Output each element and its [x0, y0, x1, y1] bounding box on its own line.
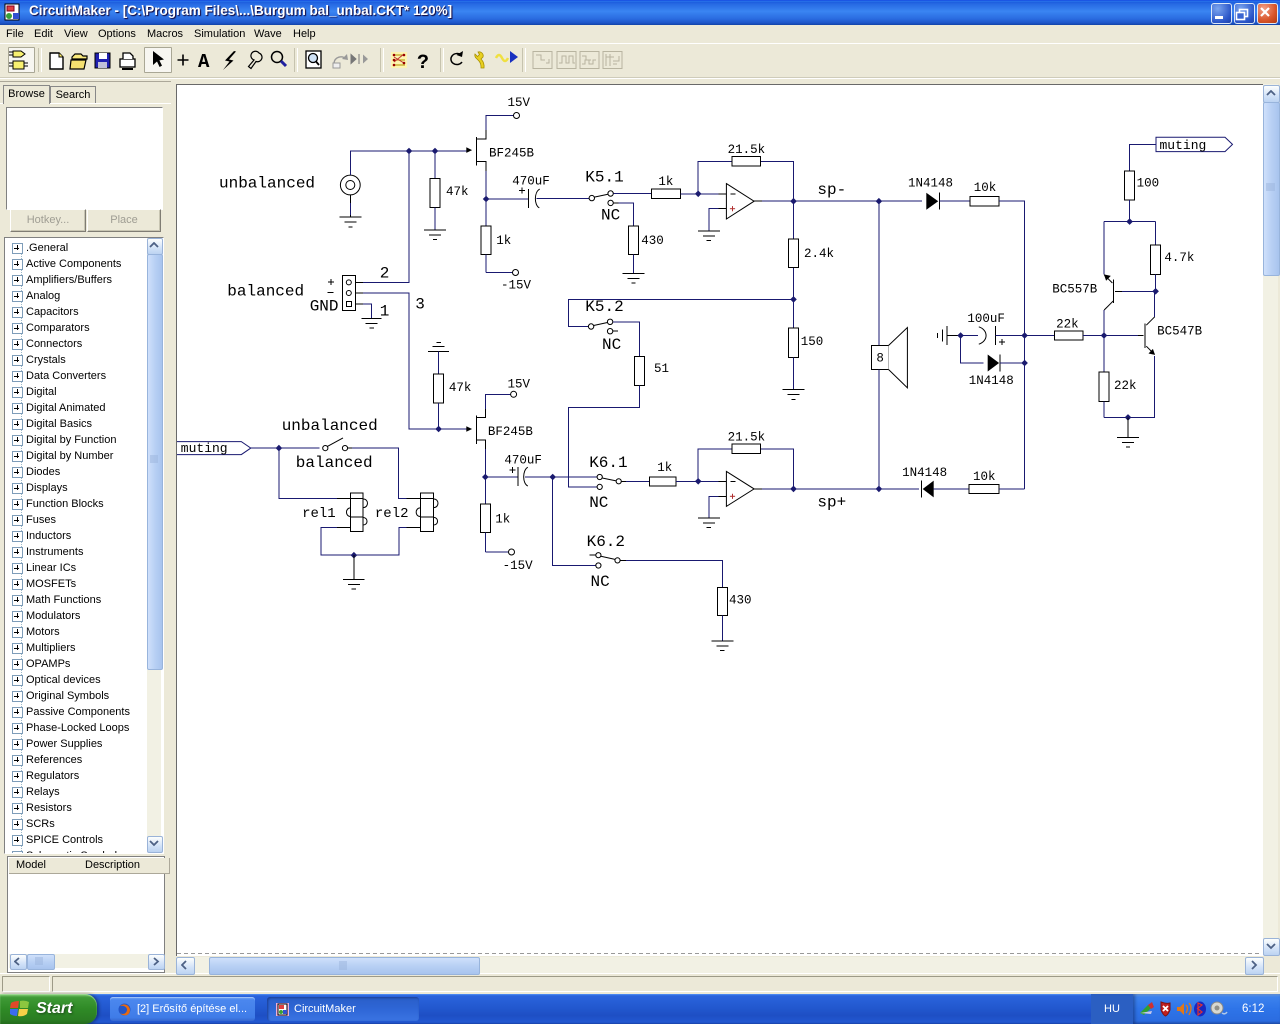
- wire bus to R10: [1025, 335, 1055, 337]
- svg-text:150: 150: [801, 335, 824, 349]
- node GNDRAIL junction: [351, 552, 358, 559]
- svg-text:100uF: 100uF: [967, 312, 1005, 326]
- wire top input net: [350, 151, 466, 175]
- node BUS2 (bus/D2 junction): [1021, 360, 1028, 367]
- node N3 (22k/base junction): [1101, 332, 1108, 339]
- resistor R18 10k: [969, 470, 999, 494]
- svg-text:470uF: 470uF: [504, 453, 542, 467]
- wire U1 out to divider: [793, 201, 795, 328]
- open folder: [72, 54, 87, 59]
- node DIV (divider junction): [790, 296, 797, 303]
- svg-text:BF245B: BF245B: [489, 147, 535, 161]
- node A (pin2 junction): [406, 148, 413, 155]
- resistor R10 22k: [1054, 318, 1083, 341]
- ground (relay rail): [343, 555, 365, 589]
- node S2 (Q4 source junction): [482, 474, 489, 481]
- terminal -15V (2): [509, 549, 515, 555]
- plus: [178, 55, 189, 66]
- svg-text:muting: muting: [1160, 138, 1207, 153]
- wire S2 to C2: [485, 476, 517, 478]
- resistor R16 1k: [650, 461, 676, 486]
- wire C1 to K5.1: [537, 198, 590, 200]
- wire K5.1 NC to R3: [619, 203, 634, 226]
- switch S1: [323, 438, 352, 451]
- wire R15 to -15V: [485, 551, 508, 553]
- wire D3 to R18: [934, 488, 969, 490]
- ground (U2 + input): [698, 518, 720, 528]
- wire K6.2 to R19: [626, 560, 722, 587]
- node U1- (inverting input junction): [695, 191, 702, 198]
- svg-text:sp+: sp+: [817, 493, 846, 511]
- resistor R12 4.7k: [1151, 245, 1195, 291]
- wire S1 to C1: [486, 198, 528, 200]
- transistor Q4 BF245B (JFET): [466, 409, 533, 449]
- undo circle: [451, 54, 462, 65]
- wire C2 to K6.1 node: [525, 476, 597, 478]
- menu bar: [0, 25, 1280, 43]
- wire K6.1 to R16: [626, 480, 650, 482]
- wire R8 to K6.1 NC throw: [569, 385, 640, 487]
- new doc: [50, 53, 63, 69]
- svg-text:1: 1: [380, 303, 390, 321]
- svg-text:47k: 47k: [446, 185, 469, 199]
- ground (left of C3, rotated): [938, 326, 958, 345]
- resistor R15 1k: [480, 504, 510, 552]
- svg-text:1k: 1k: [657, 461, 672, 475]
- run wave: [496, 55, 508, 61]
- wire pin1 to ground: [363, 304, 372, 318]
- wire D1 to R9: [940, 200, 970, 202]
- lightning: [223, 51, 236, 70]
- title bar: [0, 0, 1280, 25]
- resistor R14 47k: [434, 352, 472, 430]
- wire Q3 collector up: [1154, 291, 1156, 317]
- svg-text:100: 100: [1137, 177, 1160, 191]
- connectivity icon: [391, 52, 407, 68]
- node sp-1 (U1 out): [790, 198, 797, 205]
- node K6N (cap out junction): [549, 474, 556, 481]
- node N2 (4.7k/base/collector junction): [1152, 288, 1159, 295]
- resistor R1 47k: [430, 151, 469, 230]
- svg-text:4.7k: 4.7k: [1164, 251, 1194, 265]
- canvas h scrollbar: [176, 957, 1262, 973]
- svg-text:47k: 47k: [449, 381, 472, 395]
- resistor R7 150: [789, 328, 824, 389]
- taskbar: [0, 994, 1280, 1024]
- wire feedback U1: [698, 161, 793, 201]
- connector J2 balanced (3-pin): [343, 275, 363, 310]
- resistor R19 430: [717, 587, 751, 641]
- probe outline: [249, 51, 263, 68]
- wire rel1 bottom to ground rail: [321, 527, 407, 555]
- svg-text:balanced: balanced: [296, 454, 373, 472]
- print: [120, 59, 135, 67]
- terminal -15V: [513, 270, 519, 276]
- left panel: [0, 81, 171, 974]
- wire K5.2 to R8: [613, 322, 640, 357]
- resistor R8 51: [635, 357, 670, 386]
- svg-text:21.5k: 21.5k: [728, 143, 766, 157]
- wrench: [475, 52, 484, 68]
- resistor R2 1k: [481, 226, 511, 273]
- svg-text:K5.1: K5.1: [585, 169, 623, 187]
- svg-text:1k: 1k: [658, 175, 673, 189]
- wire M1 branches: [1104, 222, 1156, 275]
- wire Q4 drain to 15V: [485, 394, 510, 409]
- browse toggle icon: [9, 51, 28, 69]
- svg-text:NC: NC: [601, 207, 620, 225]
- node sp-2 (speaker top): [876, 198, 883, 205]
- svg-text:K5.2: K5.2: [585, 298, 623, 316]
- wire U1 noninv to ground: [709, 209, 719, 231]
- wire pin3 to Q4 gate: [363, 293, 466, 429]
- svg-text:K6.1: K6.1: [589, 454, 627, 472]
- node sp+1 (U2 out): [790, 486, 797, 493]
- svg-text:22k: 22k: [1056, 318, 1079, 332]
- svg-text:unbalanced: unbalanced: [282, 417, 378, 435]
- diode D1 1N4148: [908, 177, 953, 210]
- svg-text:470uF: 470uF: [512, 175, 550, 189]
- ground (U1 + input): [698, 231, 720, 241]
- flag muting (left): [176, 441, 251, 456]
- op-amp U1: [719, 184, 762, 219]
- label + (pin2): [328, 279, 334, 285]
- sheet border dashed: [177, 953, 1262, 955]
- wire Q1 drain to 15V: [486, 116, 513, 131]
- arrow cursor: [153, 51, 164, 67]
- svg-text:BC557B: BC557B: [1052, 283, 1098, 297]
- svg-text:3: 3: [415, 295, 425, 313]
- svg-text:balanced: balanced: [227, 283, 304, 301]
- capacitor C2 470uF: [504, 453, 542, 486]
- wire to D2: [961, 336, 984, 364]
- svg-text:rel2: rel2: [375, 506, 409, 522]
- node M2 (muting junction): [276, 445, 283, 452]
- resistor R9 10k: [970, 181, 999, 206]
- svg-text:BF245B: BF245B: [488, 425, 534, 439]
- splitter arrows: [351, 54, 359, 64]
- node C3L (cap left junction): [957, 332, 964, 339]
- diode D2 1N4148: [969, 355, 1014, 389]
- transistor Q1 BF245B (JFET): [466, 130, 534, 171]
- resistor R3 430: [629, 226, 664, 274]
- wire feedback U2: [698, 449, 793, 489]
- ground (under R1): [424, 230, 446, 240]
- svg-text:1k: 1k: [496, 234, 511, 248]
- tray icons: [1140, 1005, 1152, 1015]
- svg-text:1N4148: 1N4148: [902, 466, 947, 480]
- svg-text:sp-: sp-: [817, 181, 846, 199]
- wire D2 to bus: [1000, 362, 1025, 364]
- toolbar: [0, 43, 1280, 78]
- page zoom: [306, 51, 321, 68]
- svg-text:1k: 1k: [495, 513, 510, 527]
- flag muting (right): [1156, 137, 1233, 153]
- wire divider to K5.2: [569, 299, 794, 326]
- diode D3 1N4148: [902, 466, 947, 498]
- wire flag to switch: [251, 447, 319, 449]
- tree scrollbar: [147, 238, 161, 851]
- wire U2 noninv to ground: [709, 496, 719, 518]
- wire muting node to rel1: [279, 448, 337, 498]
- capacitor C1 470uF: [512, 175, 550, 208]
- node S1 (Q1 source junction): [483, 196, 490, 203]
- ground (right section): [1117, 417, 1139, 447]
- canvas: [176, 84, 1264, 956]
- relay contact K5.1: [585, 169, 623, 225]
- wire R2 to -15V: [486, 272, 512, 274]
- svg-text:NC: NC: [589, 494, 608, 512]
- svg-text:430: 430: [641, 234, 664, 248]
- svg-text:2.4k: 2.4k: [804, 247, 834, 261]
- wire R9 to right bus: [999, 201, 1025, 489]
- wire Q3 emitter to ground rail: [1104, 356, 1155, 417]
- ground (under R3): [623, 274, 645, 284]
- resistor R17 21.5k: [728, 430, 766, 453]
- svg-text:muting: muting: [181, 441, 228, 456]
- speaker LS1 8ohm: [872, 201, 908, 489]
- node G2J (47k2 junction): [435, 426, 442, 433]
- svg-text:21.5k: 21.5k: [728, 430, 766, 444]
- node M1 (muting divider junction): [1126, 218, 1133, 225]
- node BUS1 (bus/cap junction): [1021, 332, 1028, 339]
- relay contact K6.1: [589, 454, 627, 512]
- wire R10 to base node: [1083, 335, 1104, 337]
- svg-text:-15V: -15V: [501, 279, 532, 293]
- svg-text:K6.2: K6.2: [587, 533, 625, 551]
- label - (pin3): [327, 291, 333, 293]
- wire Q1 source node: [485, 171, 487, 226]
- svg-text:A: A: [198, 51, 210, 73]
- resistor R11 100: [1125, 171, 1160, 222]
- wire C3 left: [961, 335, 978, 337]
- svg-text:10k: 10k: [973, 470, 996, 484]
- node U2- (inv input junction): [695, 478, 702, 485]
- svg-text:51: 51: [654, 362, 669, 376]
- status bar: [0, 973, 1280, 995]
- svg-text:GND: GND: [310, 297, 339, 315]
- svg-text:2: 2: [380, 265, 390, 283]
- inverted ground (above R14): [428, 342, 449, 351]
- node N4 (emitter/22k/gnd junction): [1125, 414, 1132, 421]
- wire R4 to U1 inv input: [681, 193, 719, 195]
- capacitor C3 100uF: [967, 312, 1005, 345]
- svg-text:1N4148: 1N4148: [908, 177, 953, 191]
- connector J1 unbalanced jack: [340, 175, 360, 217]
- wire R16 to U2 inv: [676, 480, 719, 482]
- transistor Q3 BC547B (NPN): [1138, 317, 1203, 355]
- ground (under R19): [711, 641, 733, 651]
- canvas v scrollbar: [1263, 84, 1278, 955]
- svg-text:8: 8: [876, 352, 884, 366]
- relay contact K5.2: [585, 298, 623, 354]
- svg-text:BC547B: BC547B: [1157, 325, 1203, 339]
- svg-text:-15V: -15V: [503, 559, 534, 573]
- svg-text:430: 430: [729, 594, 752, 608]
- wire switch to rel2: [352, 448, 406, 498]
- relay contact K6.2: [587, 533, 626, 591]
- svg-text:10k: 10k: [974, 181, 997, 195]
- resistor R4 1k: [651, 175, 680, 199]
- svg-text:unbalanced: unbalanced: [219, 175, 315, 193]
- ground (under R7): [783, 390, 805, 400]
- svg-text:?: ?: [417, 52, 429, 75]
- wire R18 to bus: [999, 488, 1025, 490]
- svg-text:1N4148: 1N4148: [969, 374, 1014, 388]
- scope buttons (grayed): [533, 52, 622, 69]
- ground (pin1): [362, 319, 382, 329]
- svg-text:15V: 15V: [508, 378, 531, 392]
- wire Q2 collector down: [1103, 310, 1105, 336]
- terminal 15V (2): [511, 391, 517, 397]
- transistor Q2 BC557B (PNP): [1052, 274, 1122, 310]
- wire Q2 base to node: [1122, 290, 1156, 292]
- save floppy: [95, 53, 110, 68]
- node B (47k junction): [432, 148, 439, 155]
- wire pin2 to top net: [363, 151, 409, 282]
- svg-text:15V: 15V: [508, 96, 531, 110]
- wire U1 output / sp- net: [762, 200, 922, 202]
- svg-text:22k: 22k: [1114, 379, 1137, 393]
- ground (under jack J1): [339, 217, 361, 227]
- wire K6N down to K6.2: [553, 477, 596, 566]
- wire U2 output / sp+ net: [762, 488, 919, 490]
- resistor R5 21.5k: [728, 143, 766, 166]
- svg-text:NC: NC: [591, 573, 610, 591]
- wire K5.1 to R4: [613, 193, 651, 195]
- op-amp U2: [719, 471, 762, 506]
- relay coil rel1: [302, 493, 367, 531]
- rotate (gray): [334, 57, 346, 63]
- zoom: [272, 52, 283, 63]
- wire flag to R11: [1130, 144, 1156, 171]
- svg-text:NC: NC: [602, 336, 621, 354]
- svg-text:rel1: rel1: [302, 506, 336, 522]
- wire C3 right to bus: [995, 335, 1024, 337]
- node sp+2 (speaker bottom): [876, 486, 883, 493]
- resistor R6 2.4k: [789, 239, 835, 268]
- resistor R13 22k: [1099, 336, 1137, 418]
- terminal 15V: [514, 113, 520, 119]
- wire base net: [1104, 335, 1138, 337]
- wire Q4 source: [484, 449, 486, 504]
- relay coil rel2: [375, 493, 438, 532]
